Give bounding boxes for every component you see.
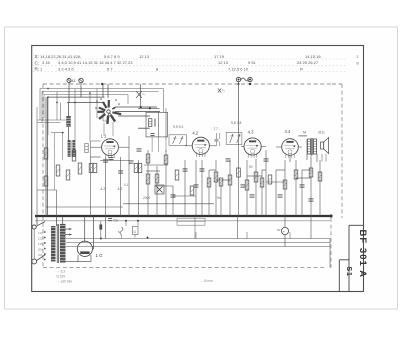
svg-text:5 6 7 8 9: 5 6 7 8 9	[104, 54, 120, 59]
svg-text:200: 200	[38, 248, 43, 252]
svg-text:Cw: Cw	[114, 219, 119, 223]
svg-text:S1: S1	[345, 267, 352, 277]
svg-text:5n: 5n	[217, 196, 221, 200]
svg-text:4.4: 4.4	[285, 129, 291, 134]
svg-text:7,12,5 6 10: 7,12,5 6 10	[228, 66, 249, 71]
svg-text:BF 301 A: BF 301 A	[358, 230, 369, 279]
svg-text:14,18,22,26,31,41,42A: 14,18,22,26,31,41,42A	[40, 54, 81, 59]
svg-text:125: 125	[38, 237, 43, 241]
svg-text:→ Ø mm: → Ø mm	[200, 279, 213, 283]
svg-text:1 G: 1 G	[96, 253, 104, 258]
svg-text:12 13: 12 13	[218, 60, 229, 65]
svg-text:R: R	[300, 66, 303, 71]
svg-text:4 4,5 10,5 41 14,15 31: 4 4,5 10,5 41 14,15 31 16 44,4 7 32 27,2…	[58, 60, 133, 65]
svg-text:4.2: 4.2	[192, 130, 198, 135]
svg-text:17 19: 17 19	[214, 54, 225, 59]
svg-text:4.3: 4.3	[248, 130, 254, 135]
svg-text:7,7: 7,7	[214, 127, 219, 131]
svg-text:9,8 7,8: 9,8 7,8	[231, 121, 241, 125]
svg-text:9,9 9,2: 9,9 9,2	[173, 125, 183, 129]
svg-text:4.3: 4.3	[118, 187, 123, 191]
svg-text:50: 50	[277, 228, 281, 232]
svg-text:41: 41	[72, 79, 76, 83]
svg-text:M: M	[303, 131, 306, 135]
svg-text:50: 50	[249, 165, 253, 169]
svg-text:→ ±20 mm: → ±20 mm	[57, 280, 73, 284]
svg-text:C:: C:	[35, 60, 40, 65]
svg-text:0,1: 0,1	[124, 183, 129, 187]
svg-text:145: 145	[38, 242, 43, 246]
svg-text:→ 6,3: → 6,3	[57, 270, 66, 274]
svg-text:4.2: 4.2	[101, 187, 106, 191]
svg-text:3 2 4 3 6: 3 2 4 3 6	[58, 66, 74, 71]
svg-text:14,15,16: 14,15,16	[305, 54, 321, 59]
svg-text:12 13: 12 13	[139, 54, 150, 59]
svg-text:S:: S:	[35, 54, 39, 59]
svg-text:Ω 220: Ω 220	[57, 275, 66, 279]
svg-text:5 7: 5 7	[107, 66, 113, 71]
svg-text:24 25 26,27: 24 25 26,27	[297, 60, 319, 65]
svg-text:2: 2	[357, 55, 359, 59]
svg-text:9 51: 9 51	[248, 60, 257, 65]
svg-text:220: 220	[38, 253, 43, 257]
svg-text:3 16: 3 16	[42, 60, 51, 65]
svg-text:R:: R:	[35, 67, 40, 72]
svg-text:110: 110	[38, 231, 43, 235]
svg-text:2000: 2000	[143, 196, 150, 200]
svg-text:3111: 3111	[318, 131, 325, 135]
